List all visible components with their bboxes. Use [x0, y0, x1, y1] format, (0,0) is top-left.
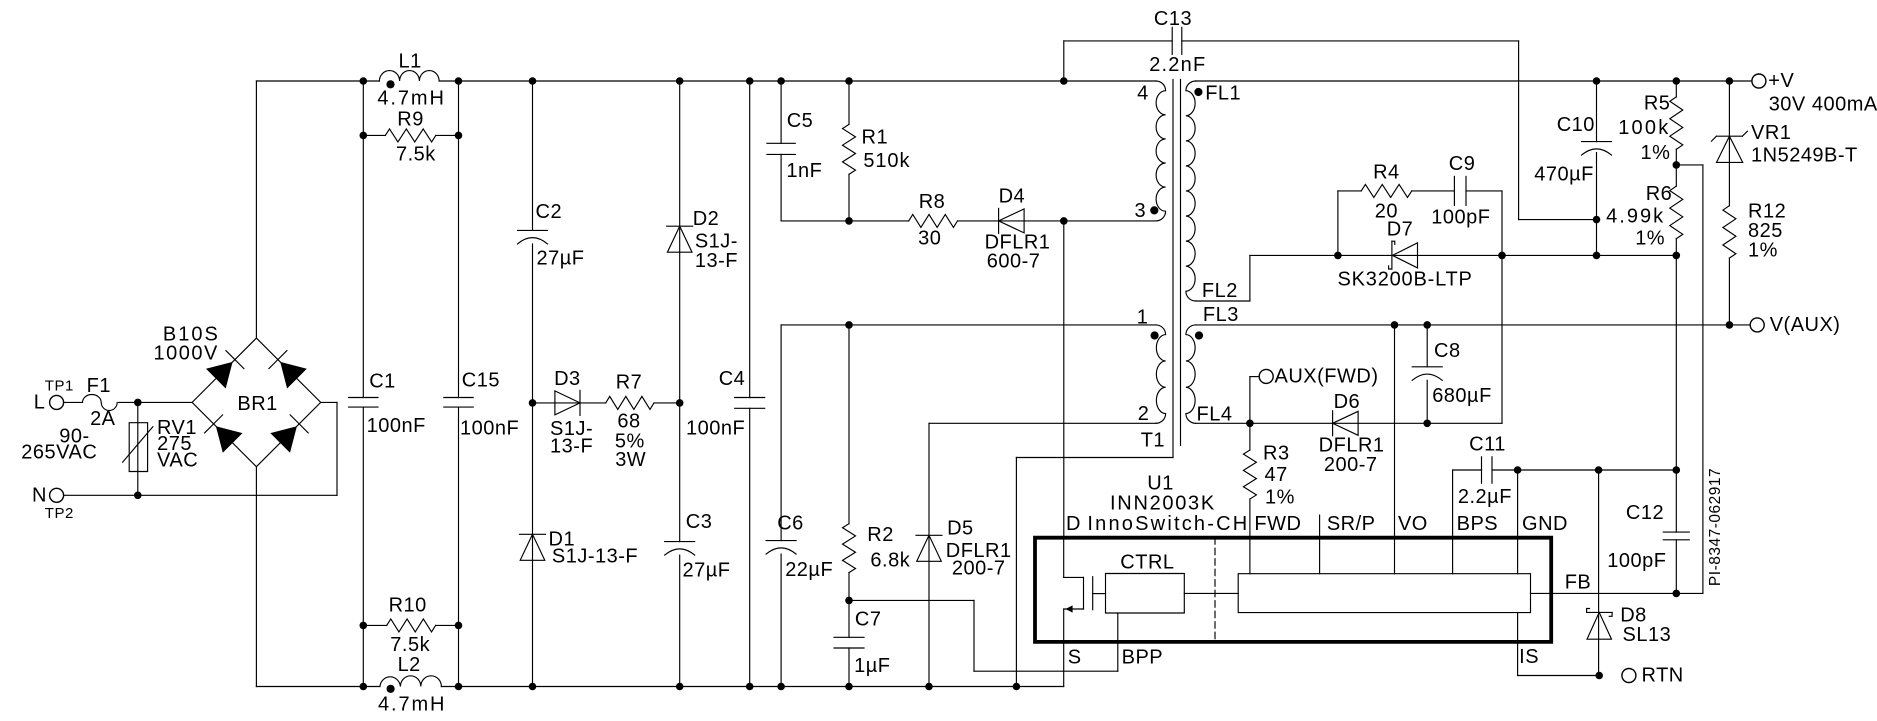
svg-text:510k: 510k — [863, 150, 910, 172]
svg-text:FB: FB — [1565, 572, 1592, 594]
svg-text:R3: R3 — [1263, 443, 1290, 465]
svg-text:C9: C9 — [1449, 153, 1476, 175]
svg-text:200-7: 200-7 — [1324, 454, 1378, 476]
svg-text:1%: 1% — [1748, 239, 1778, 261]
svg-text:100nF: 100nF — [367, 415, 426, 437]
svg-text:7.5k: 7.5k — [396, 144, 436, 166]
svg-text:BPP: BPP — [1122, 646, 1164, 668]
svg-text:6.8k: 6.8k — [870, 549, 910, 571]
svg-text:VR1: VR1 — [1751, 122, 1791, 144]
svg-text:FL3: FL3 — [1203, 304, 1239, 326]
svg-text:C5: C5 — [787, 110, 814, 132]
svg-text:U1: U1 — [1147, 473, 1174, 495]
svg-text:C7: C7 — [855, 608, 882, 630]
svg-text:D4: D4 — [999, 186, 1026, 208]
svg-text:4.7mH: 4.7mH — [377, 88, 445, 110]
svg-text:470µF: 470µF — [1534, 164, 1594, 186]
svg-text:+V: +V — [1768, 70, 1794, 92]
svg-text:T1: T1 — [1141, 430, 1165, 452]
svg-text:C8: C8 — [1434, 340, 1461, 362]
svg-text:R2: R2 — [867, 524, 894, 546]
svg-text:R1: R1 — [862, 127, 889, 149]
svg-text:1: 1 — [1137, 307, 1149, 329]
svg-text:L2: L2 — [398, 654, 421, 676]
svg-text:4.99k: 4.99k — [1606, 205, 1665, 227]
svg-text:1%: 1% — [1635, 227, 1665, 249]
svg-text:47: 47 — [1265, 464, 1288, 486]
svg-text:F1: F1 — [87, 375, 111, 397]
svg-text:2: 2 — [1138, 403, 1150, 425]
svg-text:InnoSwitch-CH: InnoSwitch-CH — [1087, 513, 1249, 535]
svg-text:R9: R9 — [397, 109, 424, 131]
svg-text:D6: D6 — [1334, 391, 1361, 413]
svg-text:C4: C4 — [719, 368, 746, 390]
svg-text:100pF: 100pF — [1607, 550, 1666, 572]
svg-text:100pF: 100pF — [1431, 206, 1490, 228]
svg-text:C6: C6 — [777, 513, 804, 535]
svg-text:600-7: 600-7 — [987, 251, 1041, 273]
svg-text:C12: C12 — [1626, 502, 1664, 524]
svg-text:C1: C1 — [369, 371, 396, 393]
svg-text:1000V: 1000V — [154, 343, 219, 365]
svg-text:30V 400mA: 30V 400mA — [1769, 94, 1877, 116]
svg-text:FL2: FL2 — [1202, 280, 1238, 302]
svg-text:R6: R6 — [1646, 183, 1673, 205]
svg-text:FWD: FWD — [1254, 513, 1301, 535]
svg-text:R4: R4 — [1373, 162, 1400, 184]
svg-text:R8: R8 — [919, 191, 946, 213]
svg-text:FL4: FL4 — [1197, 403, 1233, 425]
svg-text:INN2003K: INN2003K — [1110, 492, 1216, 514]
svg-text:22µF: 22µF — [785, 559, 833, 581]
svg-text:68: 68 — [617, 411, 640, 433]
svg-text:TP2: TP2 — [45, 505, 74, 522]
svg-text:C13: C13 — [1154, 8, 1192, 30]
svg-text:1nF: 1nF — [786, 160, 822, 182]
svg-text:R5: R5 — [1644, 93, 1671, 115]
svg-text:SR/P: SR/P — [1327, 513, 1376, 535]
svg-text:200-7: 200-7 — [952, 558, 1006, 580]
svg-text:CTRL: CTRL — [1120, 552, 1174, 574]
svg-text:20: 20 — [1375, 200, 1398, 222]
svg-text:D5: D5 — [947, 517, 974, 539]
svg-text:13-F: 13-F — [550, 436, 593, 458]
svg-text:2A: 2A — [90, 408, 116, 430]
svg-text:R10: R10 — [389, 594, 427, 616]
svg-text:L1: L1 — [398, 50, 421, 72]
svg-text:RTN: RTN — [1642, 665, 1684, 687]
svg-text:C3: C3 — [686, 511, 713, 533]
svg-text:SK3200B-LTP: SK3200B-LTP — [1338, 269, 1473, 291]
svg-text:265VAC: 265VAC — [21, 441, 97, 463]
svg-text:SL13: SL13 — [1623, 624, 1672, 646]
svg-text:1N5249B-T: 1N5249B-T — [1751, 145, 1858, 167]
svg-text:13-F: 13-F — [695, 250, 738, 272]
svg-text:27µF: 27µF — [537, 248, 585, 270]
svg-text:IS: IS — [1519, 646, 1539, 668]
svg-text:L: L — [34, 391, 46, 413]
svg-text:BPS: BPS — [1457, 513, 1499, 535]
svg-text:D2: D2 — [693, 208, 720, 230]
svg-text:2.2nF: 2.2nF — [1149, 54, 1206, 76]
svg-text:1µF: 1µF — [854, 655, 890, 677]
svg-text:27µF: 27µF — [683, 560, 731, 582]
svg-text:GND: GND — [1522, 513, 1568, 535]
svg-text:V(AUX): V(AUX) — [1770, 314, 1841, 336]
svg-text:VAC: VAC — [157, 449, 198, 471]
svg-text:100k: 100k — [1618, 117, 1670, 139]
svg-text:R7: R7 — [616, 372, 643, 394]
svg-text:VO: VO — [1398, 513, 1428, 535]
svg-text:100nF: 100nF — [686, 417, 745, 439]
svg-text:C10: C10 — [1557, 114, 1595, 136]
svg-text:3: 3 — [1134, 200, 1146, 222]
svg-text:4.7mH: 4.7mH — [378, 694, 446, 716]
svg-text:TP1: TP1 — [45, 377, 74, 394]
svg-text:BR1: BR1 — [237, 393, 277, 415]
svg-text:N: N — [32, 484, 47, 506]
svg-text:AUX(FWD): AUX(FWD) — [1275, 366, 1379, 388]
svg-text:1%: 1% — [1265, 487, 1295, 509]
svg-text:2.2µF: 2.2µF — [1458, 486, 1512, 508]
svg-text:680µF: 680µF — [1432, 385, 1492, 407]
svg-text:D3: D3 — [554, 368, 581, 390]
svg-text:S1J-13-F: S1J-13-F — [552, 546, 638, 568]
svg-text:C15: C15 — [462, 369, 500, 391]
svg-text:C2: C2 — [536, 201, 563, 223]
svg-text:3W: 3W — [615, 449, 646, 471]
svg-text:4: 4 — [1137, 83, 1149, 105]
svg-text:C11: C11 — [1469, 434, 1506, 456]
svg-text:D: D — [1066, 513, 1081, 535]
svg-text:PI-8347-062917: PI-8347-062917 — [1707, 468, 1724, 586]
svg-text:1%: 1% — [1640, 142, 1670, 164]
svg-text:7.5k: 7.5k — [390, 634, 430, 656]
svg-text:100nF: 100nF — [460, 418, 519, 440]
svg-text:FL1: FL1 — [1205, 83, 1241, 105]
svg-text:30: 30 — [918, 228, 941, 250]
svg-text:S: S — [1068, 646, 1082, 668]
